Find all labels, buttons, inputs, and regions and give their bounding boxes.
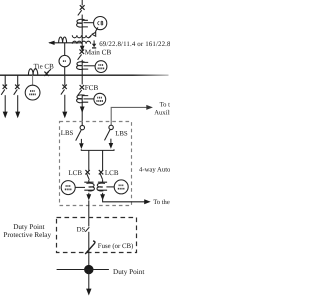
svg-text:To t: To t: [160, 101, 170, 108]
svg-text:LBS: LBS: [61, 130, 74, 137]
delta winding symbol: [88, 27, 98, 38]
meter bubble M: [59, 55, 70, 66]
svg-text:Fuse (or CB): Fuse (or CB): [98, 243, 134, 250]
feeder F2 drop: [17, 75, 19, 86]
wire: Main CB to bus: [81, 60, 83, 75]
Main CB switch (x mark + blade): [78, 49, 85, 59]
relay bubble CB (top): [94, 17, 107, 30]
wire: link to LCB-right relay bubble: [106, 186, 114, 188]
wire: left branch to duty point: [88, 200, 90, 226]
relay bubble (Main CB): [95, 61, 107, 73]
breaker coil (top CB): [77, 19, 85, 27]
DS switch blade: [85, 227, 89, 232]
wire: LCB left column: [88, 150, 90, 170]
svg-text:Duty Point: Duty Point: [113, 268, 144, 276]
svg-text:4-way Auto: 4-way Auto: [139, 166, 170, 173]
Tie CB coil on bus: [28, 69, 37, 75]
svg-text:LCB: LCB: [68, 169, 82, 177]
svg-text:Duty Point: Duty Point: [13, 223, 44, 231]
CT ticks (Main CB): [82, 62, 88, 69]
wire: LCB right lower: [102, 180, 104, 183]
arrowhead on main line above Main CB: [80, 46, 85, 52]
breaker coil (FCB): [77, 95, 85, 103]
svg-text:LCB: LCB: [105, 169, 119, 177]
wire: LCB left lower: [88, 180, 90, 183]
LBS right: pivot dot: [109, 125, 113, 129]
wire: DS to fuse: [88, 232, 90, 265]
svg-text:Main CB: Main CB: [85, 48, 112, 56]
arrowhead on feeder into box: [80, 107, 85, 113]
wire: link to FCB relay bubble: [84, 98, 95, 100]
wire: tertiary 11.4kV line: [49, 42, 82, 44]
svg-text:Auxilia: Auxilia: [154, 110, 170, 117]
dashed enclosure: 4-way automatic line switch: [60, 122, 132, 206]
tertiary winding coil: [59, 37, 67, 43]
wire: feeder F2 lower: [17, 95, 19, 112]
left-mid feeder switch: [61, 85, 67, 95]
arrowhead left-mid feeder: [62, 112, 67, 119]
wire: meter M to bus: [64, 67, 66, 75]
feeder F2 switch: [14, 85, 20, 95]
svg-text:Protective Relay: Protective Relay: [3, 231, 51, 239]
relay bubble (LCB right): [114, 180, 128, 194]
arrowhead LCB left: [86, 194, 91, 200]
arrowhead LCB right: [100, 194, 105, 200]
arrowhead feeder F2: [15, 112, 20, 119]
CT ticks (LCB right): [98, 182, 107, 190]
arrowhead feeder F1: [3, 112, 8, 119]
svg-text:LBS: LBS: [115, 130, 128, 137]
arrowhead: to the tie: [144, 199, 151, 204]
wire: LCB right column: [102, 150, 104, 170]
wire: bus to FCB: [81, 75, 83, 84]
dashed enclosure: duty point protective relay: [57, 218, 137, 253]
wire: link to Main CB relay bubble: [84, 65, 96, 67]
wire: link to CB bubble: [84, 22, 94, 24]
svg-text:DS: DS: [77, 226, 86, 233]
CT ticks (FCB): [82, 96, 88, 103]
FCB switch: [78, 85, 85, 95]
fuse symbol: [85, 241, 95, 254]
wire: duty point horizontal: [57, 269, 109, 271]
svg-text:69/22.8/11.4 or 161/22.8: 69/22.8/11.4 or 161/22.8: [99, 41, 170, 48]
wire: transfer bar: [81, 149, 114, 150]
svg-text:To the: To the: [153, 199, 170, 206]
wire: to transformer primary: [81, 15, 83, 35]
transformer T1 upper winding (22.8 side scroll): [72, 35, 90, 38]
LBS left: blade: [76, 130, 82, 141]
LBS right: arrow to bar: [109, 139, 114, 149]
wire: feeder F1 lower: [4, 95, 6, 112]
LBS left: pivot dot: [80, 125, 84, 129]
CT ticks (LCB left): [84, 182, 93, 190]
breaker coil (Main CB): [77, 62, 85, 70]
elbow wire: to auxiliary transformer: [111, 107, 146, 124]
junction dot: duty point: [84, 265, 93, 274]
arrowhead: To Aux: [146, 105, 153, 110]
wire: bus feeder (left-mid) below bus: [64, 75, 66, 85]
disconnect switch (top, x mark): [78, 5, 85, 15]
LCB left switch: [85, 170, 89, 180]
wire: incoming 69kV line: [81, 0, 83, 5]
wire: FCB down to LBS: [81, 95, 83, 125]
meter bubble A (on bus): [25, 85, 40, 100]
arrowhead (tertiary line, left): [48, 41, 54, 45]
feeder F1 switch: [1, 85, 7, 95]
svg-text:Tie CB: Tie CB: [34, 62, 55, 70]
grounded wye symbol: [92, 40, 96, 48]
relay bubble (FCB): [94, 93, 106, 105]
wire: transformer to Main CB: [81, 35, 83, 49]
wire: stub to bus meter bubble: [32, 75, 34, 85]
wire: left-mid feeder lower: [64, 95, 66, 112]
breaker coil (LCB right): [97, 183, 105, 191]
LCB right switch: [99, 170, 103, 180]
wire: below duty point: [88, 270, 90, 290]
LBS right: blade: [105, 130, 111, 141]
11.4kV bus: [0, 74, 169, 76]
svg-text:FCB: FCB: [85, 84, 99, 92]
wire: link to LCB-left relay bubble: [75, 186, 85, 188]
relay bubble (LCB left): [61, 181, 75, 195]
feeder F1 drop: [4, 75, 6, 86]
wire: tap from tertiary down: [64, 43, 66, 56]
arrowhead: load: [86, 289, 91, 296]
breaker coil (LCB left): [86, 183, 94, 191]
LBS left: arrow to bar: [79, 139, 84, 149]
tie switch (x on bus + blade): [44, 69, 51, 76]
transformer T1 lower winding scroll: [72, 41, 90, 43]
wire: right branch to tie point: [103, 198, 145, 202]
